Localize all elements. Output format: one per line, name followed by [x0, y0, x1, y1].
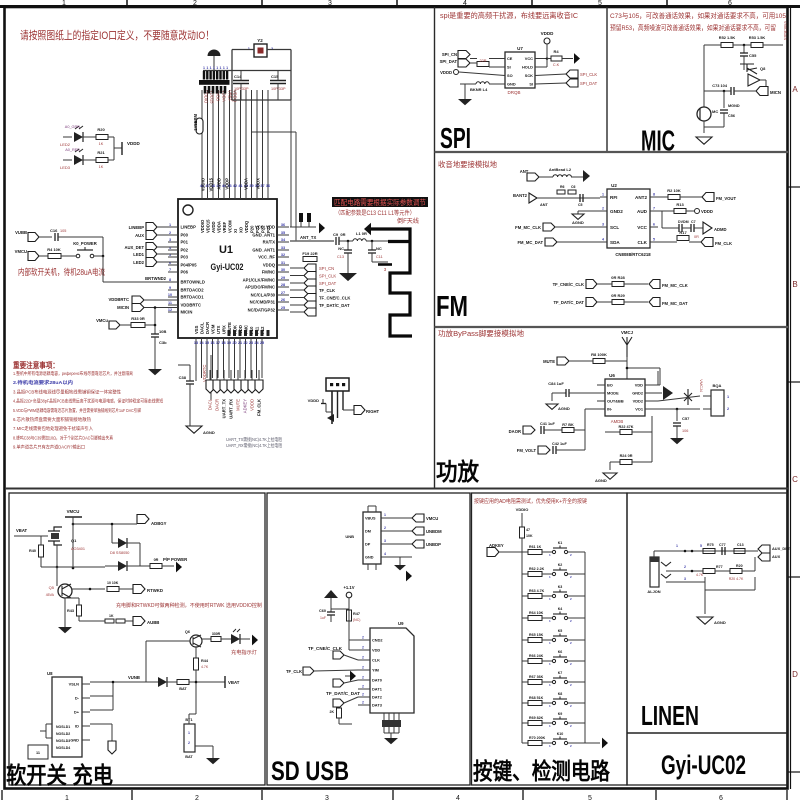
svg-text:FM_CLK: FM_CLK — [715, 241, 732, 246]
svg-text:R53 1.5K: R53 1.5K — [749, 35, 766, 40]
svg-text:2K: 2K — [330, 710, 335, 714]
mic bypass capacitor C56 — [723, 90, 726, 93]
svg-text:BRTDACD2: BRTDACD2 — [181, 288, 205, 293]
svg-text:SPI: SPI — [440, 123, 471, 155]
resistor R13 to VDDD — [662, 210, 674, 212]
svg-text:SO: SO — [507, 73, 513, 78]
svg-text:SCK: SCK — [525, 73, 533, 78]
wire charge indicator row — [146, 640, 190, 642]
MIC bias resistor R52 — [704, 44, 721, 46]
svg-text:26: 26 — [281, 298, 285, 302]
svg-text:23: 23 — [249, 341, 253, 345]
inductor L2 antenna — [539, 176, 553, 178]
svg-text:VDDD: VDDD — [127, 141, 141, 146]
svg-text:VDD15: VDD15 — [205, 219, 210, 233]
svg-text:1: 1 — [210, 66, 212, 70]
svg-text:39: 39 — [249, 184, 253, 188]
svg-text:C9_0R: C9_0R — [333, 232, 346, 237]
wire ID to down port — [90, 723, 112, 725]
USB connector J2 body — [363, 512, 381, 564]
svg-text:4.7K: 4.7K — [696, 573, 704, 577]
svg-text:DACL: DACL — [199, 322, 204, 334]
svg-text:R4: R4 — [553, 49, 559, 54]
resistor on RTWKD line — [107, 587, 119, 592]
capacitor C36 below VMCu wire — [151, 333, 159, 335]
svg-text:1: 1 — [223, 66, 225, 70]
svg-text:FM_MC_DAT: FM_MC_DAT — [662, 301, 688, 306]
antenna feed stub bar — [378, 263, 392, 266]
svg-text:FM_MC_CLK: FM_MC_CLK — [515, 225, 541, 230]
svg-text:BAT: BAT — [185, 755, 193, 759]
resistor R2 on FM audio out — [658, 196, 668, 198]
svg-text:VDD2: VDD2 — [633, 399, 644, 404]
svg-text:SD USB: SD USB — [271, 756, 349, 786]
svg-text:TF_CNE/C_CLK: TF_CNE/C_CLK — [308, 646, 342, 651]
section divider FM / amplifier — [435, 326, 789, 328]
resistor R30 100K on mute — [569, 360, 593, 362]
key ladder left bus wire — [521, 552, 523, 743]
key row switch K5 — [552, 638, 555, 641]
svg-text:1: 1 — [188, 731, 190, 735]
port FM_VOUT — [702, 193, 714, 202]
svg-text:22: 22 — [243, 341, 247, 345]
IC U1 body — [178, 199, 277, 338]
svg-text:36: 36 — [281, 223, 285, 227]
resistor F19 22R on P30 line — [303, 257, 317, 262]
jack footprint box above RIGHT port — [326, 378, 349, 391]
svg-text:FM_MC_DAT: FM_MC_DAT — [517, 240, 543, 245]
box soft-switch charging outline — [9, 493, 265, 785]
decoupling capacitor row pin ticks above bar — [203, 71, 205, 80]
wire left branch of charge circuit — [145, 641, 147, 682]
svg-text:预留R53，高频噪波可改善通话效果，如果对通话要求不高，可留: 预留R53，高频噪波可改善通话效果，如果对通话要求不高，可留 — [610, 23, 776, 32]
port AUBB — [133, 617, 145, 626]
svg-text:重要注意事项：: 重要注意事项： — [13, 360, 59, 370]
svg-text:TF_CNE/C_CLK: TF_CNE/C_CLK — [319, 296, 350, 301]
svg-text:D8 SS8050: D8 SS8050 — [110, 551, 129, 555]
key row switch K2 — [552, 572, 555, 575]
svg-text:2: 2 — [169, 231, 171, 235]
svg-text:ANT2: ANT2 — [635, 195, 647, 200]
crystal load capacitor C14 — [233, 80, 249, 82]
svg-text:3: 3 — [602, 223, 604, 227]
key row resistor R67 36K — [522, 681, 528, 683]
capacitor pair at VCC_RF — [299, 213, 303, 222]
svg-text:AUX_DET: AUX_DET — [124, 245, 144, 250]
svg-text:2: 2 — [362, 656, 364, 660]
resistor R46 BAT — [177, 680, 189, 685]
port MICN — [756, 87, 768, 96]
key ladder right bus wire — [584, 552, 586, 743]
svg-text:GND_ANT1: GND_ANT1 — [252, 248, 275, 253]
svg-text:(NC): (NC) — [353, 618, 360, 622]
ground AGND below C38 — [186, 426, 202, 433]
svg-text:R47: R47 — [353, 612, 360, 616]
svg-text:VDDIO: VDDIO — [200, 219, 205, 233]
svg-text:MIC: MIC — [641, 126, 675, 158]
svg-text:充电指示灯: 充电指示灯 — [231, 648, 257, 656]
capacitor C57 bypass — [676, 408, 679, 411]
svg-text:R22 47K: R22 47K — [619, 425, 634, 429]
svg-text:35: 35 — [281, 231, 285, 235]
svg-text:SPI_DAT: SPI_DAT — [319, 281, 337, 286]
svg-text:R65 15K: R65 15K — [529, 633, 544, 637]
ground AGND left of U2 — [578, 210, 600, 212]
svg-text:R43: R43 — [67, 609, 74, 613]
svg-text:ALJON: ALJON — [647, 589, 660, 594]
svg-text:32: 32 — [281, 253, 285, 257]
svg-text:2: 2 — [727, 407, 729, 411]
ground MIC — [696, 137, 712, 144]
svg-text:AUD: AUD — [637, 209, 648, 214]
ground AGND amp input — [551, 393, 553, 401]
svg-text:（匹配参数是C13 C11 L1等元件）: （匹配参数是C13 C11 L1等元件） — [335, 209, 415, 217]
resistor R24 0R — [610, 461, 620, 463]
svg-text:VBUS: VBUS — [365, 517, 376, 521]
opamp triangle mic — [748, 74, 760, 86]
wire battery pin to ground — [195, 745, 213, 747]
svg-text:DRQB: DRQB — [507, 90, 520, 95]
svg-text:URX: URX — [221, 325, 226, 334]
svg-text:1: 1 — [727, 395, 729, 399]
svg-text:U6: U6 — [609, 373, 615, 378]
svg-text:1: 1 — [169, 223, 171, 227]
svg-text:1: 1 — [213, 66, 215, 70]
svg-text:NOSLD2: NOSLD2 — [56, 732, 70, 736]
svg-text:AP1/DO/FM/NC: AP1/DO/FM/NC — [245, 285, 275, 290]
svg-text:DAT3: DAT3 — [372, 703, 383, 708]
svg-text:OUT&BB: OUT&BB — [607, 399, 624, 404]
ground wide below C13 — [339, 273, 357, 281]
resistor R43 vertical below Q5 — [64, 598, 66, 604]
svg-text:42: 42 — [233, 184, 237, 188]
svg-text:2: 2 — [362, 636, 364, 640]
jack sleeve wire down — [666, 581, 705, 583]
svg-text:IN-: IN- — [607, 407, 613, 412]
svg-text:K1: K1 — [558, 541, 563, 545]
pill connector AVDD left of bundle — [196, 118, 203, 134]
svg-text:MICIN: MICIN — [117, 305, 129, 310]
svg-text:VDDQ: VDDQ — [263, 263, 276, 268]
svg-text:UART_RX: UART_RX — [229, 399, 234, 419]
arrow into antenna net — [319, 223, 325, 234]
svg-text:GND: GND — [507, 82, 516, 87]
svg-text:12: 12 — [168, 308, 172, 312]
svg-text:BANT2: BANT2 — [513, 193, 528, 198]
svg-text:1: 1 — [216, 66, 218, 70]
wire row to diodes — [41, 566, 105, 568]
border frame top ruler ticks — [126, 0, 128, 6]
svg-text:C57: C57 — [682, 416, 690, 421]
svg-text:C77: C77 — [719, 543, 726, 547]
svg-text:25: 25 — [281, 306, 285, 310]
inductor L1 — [353, 239, 366, 241]
svg-text:21: 21 — [238, 341, 242, 345]
svg-text:功放: 功放 — [436, 458, 480, 486]
IC U7 SPI flash body — [505, 52, 535, 88]
svg-text:AO3401: AO3401 — [71, 547, 85, 551]
svg-text:10: 10 — [168, 293, 172, 297]
svg-text:UART_RX需接(NC)4.7K上拉电阻: UART_RX需接(NC)4.7K上拉电阻 — [226, 442, 282, 449]
svg-text:BQA: BQA — [713, 383, 722, 388]
svg-text:VUNB: VUNB — [128, 675, 140, 680]
svg-text:ADKEY: ADKEY — [243, 399, 248, 413]
svg-text:R63 4.7K: R63 4.7K — [529, 589, 545, 593]
svg-text:C15: C15 — [271, 74, 279, 79]
svg-text:4: 4 — [384, 552, 386, 556]
key row switch K10 — [552, 741, 555, 744]
svg-text:C55: C55 — [749, 53, 757, 58]
svg-text:R8 100K: R8 100K — [591, 352, 607, 357]
svg-text:P02: P02 — [181, 248, 189, 253]
resistor R26 on SPI line — [470, 58, 477, 60]
svg-text:VDD: VDD — [372, 648, 380, 653]
svg-text:R69 82K: R69 82K — [529, 716, 544, 720]
svg-text:NC/CMD/P31: NC/CMD/P31 — [250, 300, 276, 305]
svg-text:ANT: ANT — [540, 203, 548, 207]
svg-text:DACR: DACR — [205, 322, 210, 334]
resistors on AUBB line — [105, 619, 114, 623]
svg-text:1: 1 — [602, 193, 604, 197]
svg-text:C56: C56 — [728, 114, 735, 118]
svg-text:BAT: BAT — [179, 687, 187, 691]
svg-text:C.K: C.K — [553, 63, 560, 67]
key row resistor R62 2.2K — [522, 573, 528, 575]
svg-text:Q5: Q5 — [49, 585, 55, 590]
key row resistor R70 200K — [522, 742, 528, 744]
resistor R44 4.7K vertical — [195, 647, 197, 658]
svg-text:DAT2: DAT2 — [372, 695, 383, 700]
svg-text:LED2: LED2 — [133, 260, 144, 265]
arrow TF data — [350, 671, 356, 682]
svg-text:8: 8 — [169, 278, 171, 282]
svg-text:LINEBP: LINEBP — [181, 225, 197, 230]
svg-text:R70 200K: R70 200K — [529, 736, 546, 740]
svg-text:6.芯片散热焊盘需要大面积铺铜接地散热: 6.芯片散热焊盘需要大面积铺铜接地散热 — [13, 416, 91, 423]
svg-text:RTWKD: RTWKD — [147, 588, 163, 593]
net VBAT tee right — [224, 676, 226, 688]
svg-text:C42 1uF: C42 1uF — [552, 442, 567, 446]
resistor R17 on FM CLK — [658, 241, 677, 243]
svg-text:XI: XI — [233, 229, 238, 233]
svg-text:9: 9 — [169, 286, 171, 290]
antenna feed arrow — [364, 223, 371, 236]
port down below charger — [108, 741, 116, 754]
speaker connector J3 body — [711, 390, 724, 416]
svg-text:K7: K7 — [558, 671, 563, 675]
box SD USB outline — [267, 493, 470, 785]
IC U1 right pin stubs — [277, 226, 289, 228]
svg-text:K2: K2 — [558, 563, 563, 567]
LED D2 with resistor R20 — [63, 136, 72, 138]
svg-text:B: B — [792, 280, 797, 289]
svg-text:SPI_CN: SPI_CN — [319, 266, 334, 271]
resistor R45 on LED row — [211, 637, 221, 642]
svg-text:1: 1 — [226, 66, 228, 70]
svg-text:0R R29: 0R R29 — [611, 293, 625, 298]
wire VCC to R4 and arrow port — [535, 58, 547, 60]
svg-text:D-: D- — [75, 696, 80, 701]
capacitor C60 sd — [330, 609, 332, 612]
ambient wire from U1 to RIGHT port — [295, 169, 297, 241]
svg-text:VBAT: VBAT — [228, 680, 240, 685]
svg-text:P03: P03 — [181, 255, 189, 260]
port FM_CLK — [701, 238, 713, 247]
svg-text:20: 20 — [232, 341, 236, 345]
svg-text:3: 3 — [384, 539, 386, 543]
svg-text:LED3: LED3 — [60, 165, 71, 170]
svg-text:7: 7 — [169, 268, 171, 272]
svg-text:1.整机中所有电源退耦电容，референс布线尽量靠近芯片: 1.整机中所有电源退耦电容，референс布线尽量靠近芯片，并注意隔离 — [13, 370, 133, 377]
key row resistor R65 15K — [522, 639, 528, 641]
key row switch K3 — [552, 594, 555, 597]
svg-text:NC: NC — [338, 246, 344, 251]
svg-text:FM_CLK: FM_CLK — [257, 399, 262, 416]
svg-text:SPI_CN: SPI_CN — [442, 52, 457, 57]
svg-text:AVDD: AVDD — [217, 178, 222, 190]
FM AUD branch junction — [658, 210, 662, 212]
matching parts row before U2 — [537, 197, 557, 199]
svg-text:ID: ID — [75, 724, 79, 729]
IC U2 FM tuner body — [607, 189, 650, 248]
wire ADBGY to diode D8 loop — [72, 523, 137, 525]
svg-text:Gyi-UC02: Gyi-UC02 — [661, 750, 746, 780]
svg-text:TF_CNE/C_CLK: TF_CNE/C_CLK — [553, 282, 584, 287]
svg-text:K3: K3 — [558, 585, 563, 589]
resistor R41 and PIP POWER port — [150, 564, 162, 569]
svg-text:11: 11 — [168, 301, 172, 305]
svg-text:VDDBRTC: VDDBRTC — [181, 303, 201, 308]
svg-text:MGND: MGND — [728, 104, 740, 108]
wire mic bottom join — [703, 121, 705, 133]
resistor R48 2K vertical — [337, 708, 342, 718]
svg-text:VDDQ: VDDQ — [233, 90, 238, 103]
ground below C57 — [670, 438, 684, 444]
transistor Q5 soft switch — [58, 584, 72, 598]
svg-text:C11: C11 — [376, 255, 383, 259]
svg-text:+1.1V: +1.1V — [343, 585, 354, 590]
svg-text:SPI_CLK: SPI_CLK — [580, 72, 597, 77]
resistor R74 4.7K row2 — [703, 569, 715, 574]
svg-text:CLK: CLK — [372, 658, 380, 663]
LED D3 with resistor R21 — [63, 159, 72, 161]
port group ADKEY VDDD FMCLK below U1 — [241, 380, 249, 393]
svg-text:1K: 1K — [99, 165, 104, 169]
svg-text:C3b: C3b — [159, 340, 167, 345]
power VCC arrow symbol above U1 — [208, 50, 221, 56]
svg-text:4: 4 — [602, 238, 604, 242]
svg-text:1uF: 1uF — [320, 616, 326, 620]
capacitor C9 on ANT_TX — [335, 237, 337, 245]
IC U8 left pin stubs — [46, 723, 52, 725]
svg-text:5: 5 — [653, 238, 655, 242]
svg-text:ADBGY: ADBGY — [151, 521, 167, 526]
svg-text:5.VDD与PWM退耦电容需靠近芯片放置，并且需要单独铺线到: 5.VDD与PWM退耦电容需靠近芯片放置，并且需要单独铺线到芯片1uF DAC引… — [13, 407, 141, 414]
svg-text:TF_CLK: TF_CLK — [319, 288, 335, 293]
svg-text:GND: GND — [70, 738, 79, 743]
svg-text:AVDD: AVDD — [211, 221, 216, 233]
wire battery to VBAT rail — [188, 714, 190, 724]
svg-text:2: 2 — [384, 526, 386, 530]
IC U1 bottom pin stubs and wire bundle — [195, 338, 197, 378]
crystal Y2 body — [254, 44, 267, 57]
svg-text:VSLN: VSLN — [69, 682, 80, 687]
svg-text:VDD15: VDD15 — [209, 177, 214, 191]
ground AGND linen — [697, 617, 713, 624]
svg-text:2: 2 — [362, 676, 364, 680]
svg-text:AGND: AGND — [595, 478, 607, 483]
svg-text:R61 1K: R61 1K — [529, 545, 542, 549]
svg-text:CND2: CND2 — [372, 638, 383, 643]
svg-text:MC: MC — [712, 109, 718, 114]
svg-text:U7: U7 — [517, 46, 523, 51]
svg-text:VUBB: VUBB — [15, 230, 27, 235]
jack mid wire row2 — [666, 570, 703, 572]
svg-text:软开关 充电: 软开关 充电 — [6, 762, 113, 788]
svg-text:4.7K: 4.7K — [201, 665, 209, 669]
svg-text:Gyi-UC02: Gyi-UC02 — [211, 262, 244, 273]
svg-text:R6: R6 — [560, 185, 565, 189]
svg-text:按键、检测电路: 按键、检测电路 — [473, 758, 611, 784]
IC U2 pin stubs — [600, 196, 607, 198]
svg-text:36: 36 — [266, 184, 270, 188]
svg-text:VDDD: VDDD — [250, 399, 255, 411]
svg-text:1V5EBM: 1V5EBM — [193, 113, 198, 130]
key row resistor R68 51K — [522, 702, 528, 704]
svg-text:SDA: SDA — [610, 240, 620, 245]
svg-text:VMCU: VMCU — [67, 509, 80, 514]
diode D9 row to PIP POWER — [118, 561, 127, 571]
svg-text:DVDM: DVDM — [678, 220, 689, 224]
svg-text:匹配电路需要根据实际参数调节: 匹配电路需要根据实际参数调节 — [334, 197, 426, 207]
pushbutton K0 POWER — [76, 254, 80, 258]
svg-text:P/P POWER: P/P POWER — [163, 557, 188, 562]
svg-text:按键应用的AD电阻需测试，优先使用K+齐全的按键: 按键应用的AD电阻需测试，优先使用K+齐全的按键 — [474, 497, 588, 505]
wire LED join to VDDD — [108, 136, 114, 138]
svg-text:7: 7 — [653, 207, 655, 211]
IC U1 pin-1 marker — [183, 205, 193, 215]
svg-text:DAT0: DAT0 — [372, 678, 382, 683]
svg-text:K10: K10 — [557, 732, 564, 736]
svg-text:VCM: VCM — [210, 324, 215, 334]
svg-text:RX/TX: RX/TX — [263, 240, 276, 245]
section divider horizontal above bottom row — [5, 488, 788, 490]
capacitor C38 below U1 left — [195, 378, 197, 381]
svg-text:0R: 0R — [154, 558, 159, 562]
wire crystal to U1 XI — [290, 100, 292, 227]
svg-text:10B: 10B — [159, 329, 166, 334]
svg-text:RIGHT: RIGHT — [366, 409, 379, 414]
svg-text:K6: K6 — [558, 650, 563, 654]
wire BRTOWNLD long to left bus — [103, 281, 178, 283]
svg-text:SPI_DAT: SPI_DAT — [440, 59, 458, 64]
ground battery — [206, 758, 220, 764]
resistor R22 47K — [605, 431, 620, 433]
capacitor C73 on MICN line — [740, 90, 756, 92]
svg-text:FM_VOUT: FM_VOUT — [716, 196, 736, 201]
svg-text:1K: 1K — [99, 142, 104, 146]
IC U8 charger body — [52, 677, 82, 757]
svg-text:P01: P01 — [181, 240, 189, 245]
svg-text:倒F天线: 倒F天线 — [397, 217, 419, 225]
port SPI_CLK right — [535, 74, 566, 76]
arrow key common — [602, 738, 608, 749]
svg-text:29: 29 — [281, 276, 285, 280]
svg-text:VREF: VREF — [222, 221, 227, 233]
svg-text:C60: C60 — [319, 609, 326, 613]
svg-text:11: 11 — [36, 751, 40, 755]
svg-text:10P/33P: 10P/33P — [271, 87, 286, 91]
